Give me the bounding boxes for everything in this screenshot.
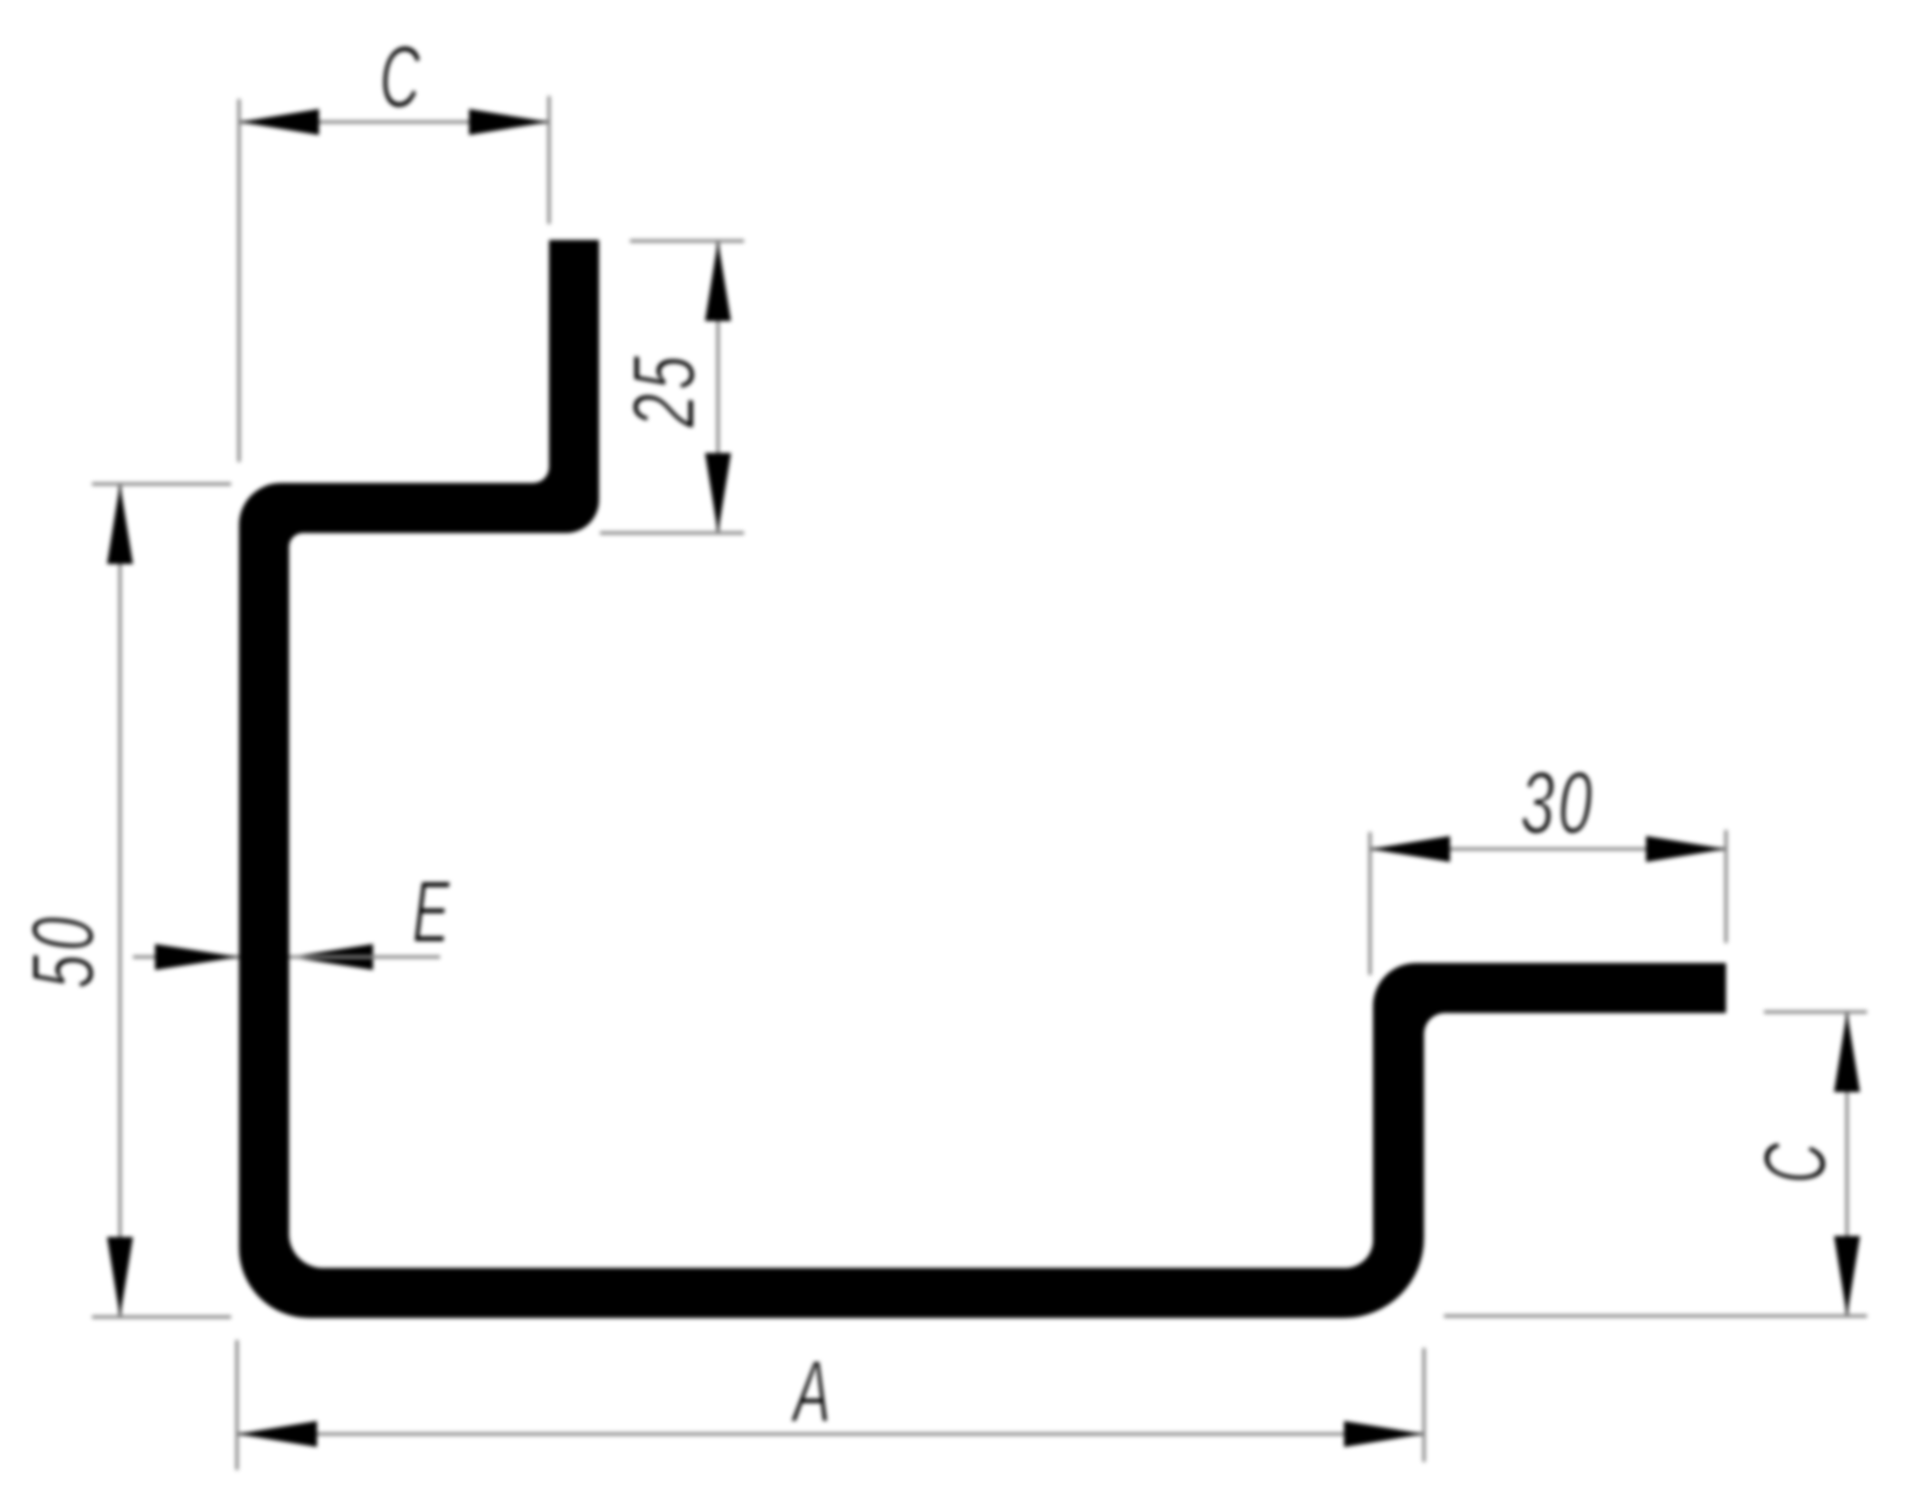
dimension 30: left arrowhead <box>1370 836 1450 862</box>
svg-text:C: C <box>1745 1142 1844 1183</box>
dimension C (right): extension line bottom <box>1444 1314 1867 1317</box>
dimension C (top): right arrowhead <box>469 109 549 135</box>
dimension 50: top arrowhead <box>107 484 133 564</box>
svg-text:50: 50 <box>14 913 112 989</box>
dimension E (web thickness): left tail line <box>133 955 239 958</box>
dimension C (top): extension line right <box>547 96 550 224</box>
svg-text:A: A <box>790 1342 831 1441</box>
svg-text:E: E <box>412 862 450 961</box>
dimension 25: dimension line <box>716 241 719 533</box>
dimension 50: bottom arrowhead <box>107 1237 133 1317</box>
svg-text:25: 25 <box>615 352 713 428</box>
dimension 30: right arrowhead <box>1646 836 1726 862</box>
dimension C (right): dimension line <box>1845 1012 1848 1316</box>
dimension 30: extension line right <box>1724 830 1727 943</box>
dimension 50: extension line bottom <box>92 1315 231 1318</box>
dimension 25: extension line bottom <box>600 531 744 534</box>
dimension C (right): top arrowhead <box>1834 1012 1860 1092</box>
dimension A (bottom): right arrowhead <box>1344 1421 1424 1447</box>
profile cross-section (bent sheet strip) <box>239 240 1726 1318</box>
svg-text:30: 30 <box>1520 754 1596 852</box>
dimension C (top): extension line left <box>237 99 240 462</box>
svg-text:C: C <box>380 27 421 126</box>
dimension 30: extension line left <box>1368 832 1371 975</box>
dimension A (bottom): extension line right <box>1422 1348 1425 1462</box>
dimension 25: top arrowhead <box>705 241 731 321</box>
dimension C (right): bottom arrowhead <box>1834 1236 1860 1316</box>
dimension E: right arrowhead (points left at web) <box>289 944 373 970</box>
dimension A (bottom): dimension line <box>237 1432 1424 1435</box>
dimension C (top): left arrowhead <box>239 109 319 135</box>
dimension 30: dimension line <box>1370 847 1726 850</box>
dimension C (right): extension line top <box>1764 1010 1867 1013</box>
dimension C (top): dimension line <box>239 120 549 123</box>
dimension E: right tail line <box>289 955 440 958</box>
dimension E: left arrowhead (points right at web) <box>155 944 239 970</box>
dimension 50: extension line top <box>92 482 231 485</box>
dimension 25: extension line top <box>630 239 744 242</box>
dimension A (bottom): left arrowhead <box>237 1421 317 1447</box>
dimension 25: bottom arrowhead <box>705 453 731 533</box>
dimension 50: dimension line <box>118 484 121 1317</box>
dimension A (bottom): extension line left <box>235 1340 238 1470</box>
